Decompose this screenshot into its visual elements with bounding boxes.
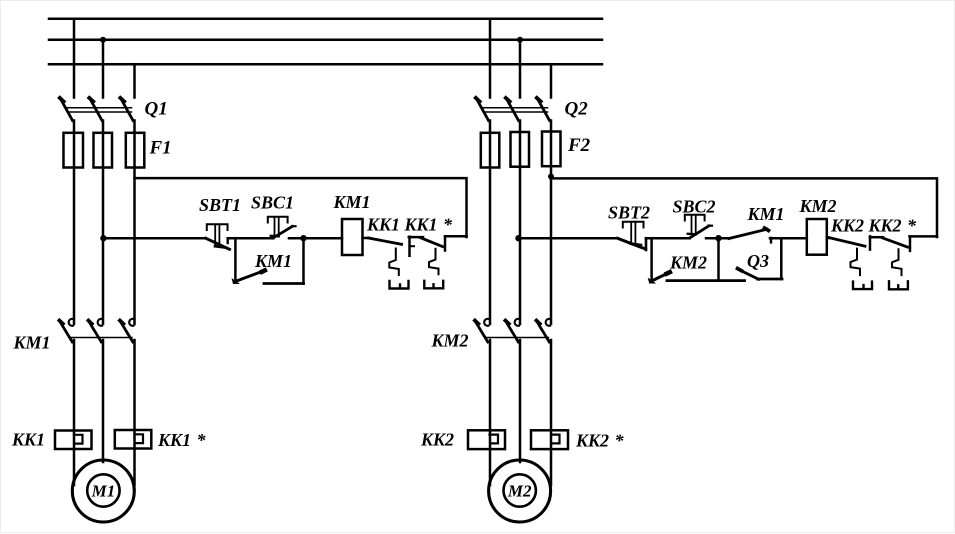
wire control1 rail right	[445, 235, 467, 238]
fuse F1 pole A	[64, 133, 84, 168]
heater KK2*	[531, 430, 568, 449]
node control1 rail tap	[100, 235, 106, 241]
svg-text:SBT1: SBT1	[199, 195, 241, 215]
svg-text:Q2: Q2	[565, 99, 589, 120]
wire control1 top feed	[135, 178, 467, 237]
wire M2 phase C lower	[550, 340, 553, 485]
contact Q3	[738, 238, 783, 279]
svg-text:KM2: KM2	[431, 331, 469, 351]
pushbutton SBC1	[268, 217, 296, 238]
wire M1 phase C lower	[133, 340, 136, 485]
fuse F1 pole B	[94, 133, 113, 168]
wire M2 phase C mid	[550, 121, 553, 325]
wire control1 rail KK1-KK1*	[409, 236, 423, 239]
wire control1 rail left	[103, 237, 205, 240]
wire control2 rail left	[519, 237, 618, 240]
node control2 rail tap	[515, 235, 521, 241]
contactor KM1 main contacts	[59, 319, 133, 342]
wire M2 phase A lower	[489, 340, 492, 485]
contact KM1 self-holding	[232, 238, 304, 284]
svg-text:M2: M2	[507, 482, 532, 501]
wire M1 phase B mid	[102, 121, 105, 325]
contact KM2 self-holding	[648, 238, 745, 283]
bus L2	[49, 39, 602, 42]
coil KM1	[342, 219, 363, 255]
svg-text:KK2: KK2	[420, 430, 454, 450]
wire M2 phase A drop	[489, 19, 492, 98]
wire control1 rail SBT1-SBC1	[228, 237, 274, 240]
wire M2 phase C drop	[550, 64, 553, 97]
svg-text:KM1: KM1	[254, 251, 292, 271]
motor M1	[72, 460, 134, 522]
wire control2 top feed	[551, 178, 937, 237]
wire control2 rail SBC2-KM1	[706, 237, 729, 240]
bus L1	[49, 18, 602, 21]
wire M1 phase A lower	[73, 340, 76, 485]
svg-text:KM2: KM2	[799, 196, 837, 216]
wire control2 rail KK2-KK2*	[870, 236, 883, 239]
wire control2 rail coil-KK2	[827, 237, 830, 240]
wire control1 rail SBC1-coil	[289, 237, 342, 240]
svg-text:SBC2: SBC2	[673, 197, 716, 217]
wire control2 rail KM1-coil	[770, 237, 807, 240]
pushbutton SBT2	[618, 222, 647, 250]
switch Q1	[60, 98, 133, 121]
svg-text:KM1: KM1	[747, 204, 785, 224]
svg-text:Q3: Q3	[747, 251, 769, 271]
wire M2 phase B drop	[519, 40, 522, 98]
svg-text:SBC1: SBC1	[251, 193, 294, 213]
motor M2	[489, 460, 551, 522]
fuse F2 pole A	[481, 133, 500, 168]
svg-text:KM1: KM1	[333, 192, 371, 212]
bus L3	[49, 63, 602, 66]
wire control1 rail coil-KK1	[363, 237, 370, 240]
contactor KM2 main contacts	[475, 319, 550, 342]
wire M1 phase C mid	[133, 121, 136, 325]
heater KK2	[468, 430, 505, 449]
wire control2 rail right	[910, 235, 938, 238]
wire M1 phase A mid	[73, 121, 76, 325]
wire M1 phase C drop	[133, 64, 136, 97]
svg-text:KK2*: KK2*	[575, 431, 625, 451]
svg-text:F1: F1	[149, 138, 172, 159]
coil KM2	[807, 219, 827, 255]
svg-text:KK2 KK2*: KK2 KK2*	[830, 216, 917, 236]
contact KM1 interlock	[729, 228, 771, 242]
wire M1 phase A drop	[73, 19, 76, 98]
svg-text:F2: F2	[567, 135, 591, 156]
pushbutton SBC2	[685, 215, 712, 238]
svg-text:Q1: Q1	[145, 99, 168, 120]
svg-text:KM2: KM2	[669, 253, 707, 273]
fuse F2 pole B	[511, 132, 530, 167]
fuse F1 pole C	[126, 133, 145, 168]
pushbutton SBT1	[206, 224, 230, 249]
contact KK1* thermal	[421, 236, 446, 288]
node M1 phase B tap	[100, 37, 106, 43]
svg-text:M1: M1	[91, 482, 116, 501]
node control1 selfhold right	[300, 235, 306, 241]
fuse F2 pole C	[542, 132, 561, 167]
svg-text:KM1: KM1	[13, 333, 51, 353]
svg-text:KK1*: KK1*	[157, 430, 207, 450]
wire control2 rail SBT2-SBC2	[646, 237, 690, 240]
node M2 phase B tap	[517, 37, 523, 43]
wire M1 phase B lower	[102, 340, 105, 462]
heater KK1	[55, 431, 92, 450]
node control2 feed tap	[548, 174, 554, 180]
contact KK1 thermal	[369, 237, 415, 289]
heater KK1*	[115, 430, 152, 449]
contact KK2 thermal	[829, 236, 872, 289]
svg-text:KK1: KK1	[11, 430, 45, 450]
contact KK2* thermal	[883, 236, 911, 289]
node control2 selfhold right	[715, 235, 721, 241]
wire M1 phase B drop	[102, 40, 105, 98]
svg-text:KK1 KK1*: KK1 KK1*	[366, 215, 453, 235]
wire M2 phase B mid	[519, 121, 522, 325]
wire M2 phase B lower	[519, 340, 522, 462]
wire M2 phase A mid	[489, 121, 492, 325]
switch Q2	[476, 98, 550, 121]
svg-text:SBT2: SBT2	[608, 203, 650, 223]
